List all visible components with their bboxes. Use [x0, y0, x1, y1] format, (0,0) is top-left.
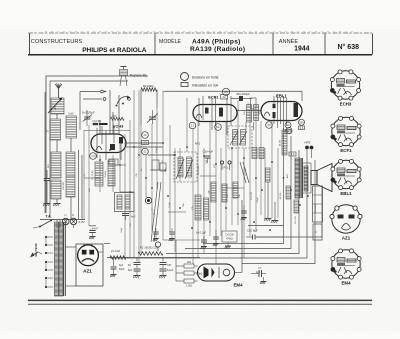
node current box [142, 141, 149, 145]
label col 6 [245, 167, 253, 200]
coil L9 [105, 160, 115, 186]
resistor R16 [280, 130, 288, 155]
coil L5 [66, 152, 75, 176]
IF transformer MF2 [195, 126, 252, 148]
ground g2 [53, 199, 61, 206]
wire h6 [84, 122, 254, 212]
speaker [311, 164, 332, 192]
label 6.3V [79, 220, 85, 224]
ground g4 [271, 202, 279, 223]
capacitor C80 [89, 231, 96, 240]
capacitor C41 [128, 258, 141, 279]
resistor R24 [204, 198, 209, 220]
legend current symbol [181, 83, 219, 88]
coil L1 antenna [48, 98, 64, 115]
header label MODELE [159, 38, 181, 45]
label EBL1 [276, 93, 287, 98]
wire em4 right [235, 200, 243, 273]
capacitor C7 [242, 266, 262, 276]
tube socket EBL1 [331, 159, 361, 196]
resistor R32 [184, 271, 203, 276]
mains plug [30, 252, 42, 258]
svg-text:RA139 (Radiolo): RA139 (Radiolo) [190, 46, 245, 53]
wire l1 [57, 138, 71, 152]
mains selector box [313, 186, 323, 222]
label col 2 [121, 222, 132, 232]
wire vertical bus group [84, 90, 278, 264]
tube ECF1 internals [196, 96, 231, 135]
output transformer secondary [304, 166, 308, 191]
node voltage 5A [215, 124, 222, 131]
mains label SECTEUR [34, 243, 38, 256]
wire ech3 top [100, 90, 163, 143]
node voltage 1.5 [90, 153, 97, 160]
wire h3 [84, 131, 130, 231]
transformer taps [45, 236, 53, 288]
tube ECH3 [91, 134, 126, 153]
wire transformer top [57, 220, 74, 229]
potentiometer P2 [138, 242, 163, 255]
sheet top edge line [28, 32, 372, 33]
wire h4 [120, 192, 200, 240]
pickup input Pu [120, 67, 128, 87]
tube EM4 [198, 264, 235, 281]
header value PHILIPS et RADIOLA [82, 47, 147, 54]
resistor R10 [244, 105, 252, 123]
resistor R22 [266, 168, 271, 182]
wire top bus [164, 91, 303, 101]
terminal PU [220, 161, 231, 170]
node current 0.6 [299, 126, 305, 130]
trimmer capacitor C5 [82, 110, 95, 126]
node voltage 12 [142, 148, 149, 155]
resistor R3 [111, 115, 125, 120]
capacitor C52 [241, 205, 247, 220]
mains selector box 2 [313, 224, 322, 240]
label Pu [130, 74, 147, 78]
tube EM4 internals [204, 267, 230, 279]
trimmer capacitor C6 [147, 110, 158, 124]
tube socket EM4 [331, 249, 361, 286]
svg-text:A49A (Philips): A49A (Philips) [192, 39, 241, 46]
capacitor C50 [196, 232, 207, 250]
svg-text:PHILIPS et RADIOLA: PHILIPS et RADIOLA [82, 47, 147, 54]
switch S1 contacts [80, 90, 107, 130]
capacitor C2 [44, 170, 51, 203]
coil L6 [51, 180, 61, 199]
tube EBL1 [261, 102, 302, 121]
small boxes under ech3 [109, 159, 166, 171]
resistor R23 [192, 195, 201, 220]
resistor R41 [294, 200, 299, 213]
wire below L1 [56, 114, 58, 119]
node voltage 1.2 [189, 122, 196, 129]
current box 6.3 [289, 152, 296, 156]
label AZ1 [83, 269, 92, 274]
coil L2 [47, 119, 61, 140]
coil core bar [99, 123, 108, 125]
capacitor C30 [203, 150, 214, 164]
ground g1 [43, 204, 51, 207]
label ECF1 [208, 94, 227, 99]
tube socket AZ1 [330, 205, 362, 241]
svg-text:CONSTRUCTEURS: CONSTRUCTEURS [31, 39, 83, 45]
power transformer core [64, 222, 66, 296]
coil L3 [66, 113, 77, 139]
wire AZ1 loop [66, 244, 103, 286]
label col 1 [84, 173, 91, 192]
svg-text:1944: 1944 [294, 46, 309, 53]
header label ANNEE [279, 38, 299, 45]
terminal strip TA [40, 215, 85, 220]
switch S1 wiper [116, 96, 131, 107]
tube ECF1 [193, 105, 237, 122]
resistor box C48 [222, 231, 237, 242]
diagonal wire d1 [240, 162, 249, 183]
node voltage dark [145, 197, 151, 203]
wire l2 [71, 150, 82, 219]
diagonal wire d2 [150, 182, 161, 242]
wire em4 in [176, 240, 198, 281]
header value No 638 [338, 43, 360, 51]
label col 7 [257, 192, 282, 203]
wire output bus staircase [110, 128, 322, 264]
coil L7 [63, 176, 75, 197]
resistor network box [115, 193, 135, 212]
resistor R25 [209, 182, 217, 202]
terminal HP2 [305, 141, 314, 158]
power transformer primary [55, 222, 59, 296]
capacitor C20 450pF [231, 92, 252, 101]
resistor R20 [252, 148, 257, 159]
svg-text:ANNÉE: ANNÉE [279, 38, 299, 45]
dial lamp 1 [62, 213, 69, 225]
coil L8 [92, 162, 103, 186]
sheet bottom line [28, 300, 372, 304]
label EM4 [233, 283, 243, 288]
wire shield box inner [50, 81, 128, 218]
resistor R26 [222, 184, 227, 202]
label col 8 [286, 173, 297, 224]
label col 3 [136, 167, 143, 176]
wire bottom bus h [104, 244, 200, 258]
junction dots [99, 142, 309, 231]
mains switch [33, 220, 52, 229]
tube AZ1 [78, 245, 99, 266]
antenna [55, 83, 62, 98]
label col 4 [156, 146, 164, 163]
resistor R31 [184, 261, 194, 268]
label ECH3 [113, 124, 124, 129]
svg-text:N° 638: N° 638 [338, 43, 360, 51]
legend voltage symbol [181, 73, 219, 81]
node voltage 200 [299, 119, 305, 125]
wire h2 [237, 110, 261, 112]
header value A49A (Philips) [192, 39, 241, 46]
wire speaker [303, 163, 311, 193]
header table frame [28, 34, 373, 55]
power transformer secondary [59, 222, 63, 296]
dial lamp 2 [70, 213, 77, 225]
coil L4 [47, 152, 61, 178]
tube socket ECF1 [331, 116, 361, 153]
output transformer primary [295, 158, 303, 198]
ground g3 [264, 182, 272, 221]
wire shield box outer [46, 76, 148, 213]
node voltage 90 [286, 128, 292, 134]
node voltage 4.5 [266, 122, 273, 129]
IF transformer MF1 [174, 152, 197, 182]
svg-text:MODÈLE: MODÈLE [159, 38, 181, 45]
tube ECH3 internals [96, 126, 123, 160]
wire h5 [230, 226, 284, 231]
capacitor C12 [122, 214, 136, 221]
capacitor C11 [93, 120, 101, 125]
tube EBL1 internals [264, 96, 298, 130]
resistor R33 [184, 279, 194, 288]
resistor R21 [259, 148, 264, 159]
capacitor C53 [153, 228, 159, 241]
resistor R30 [110, 249, 126, 259]
header value 1944 [294, 46, 309, 53]
capacitor C42 [159, 258, 174, 279]
node voltage 10b [285, 122, 291, 134]
node voltage 10 [142, 132, 149, 139]
resistor R15 [248, 98, 256, 109]
header label CONSTRUCTEURS [31, 39, 83, 45]
resistor R27 [233, 182, 238, 198]
resistor R40 [286, 186, 291, 199]
tube socket ECH3 [330, 70, 360, 107]
capacitor C54 [169, 228, 175, 241]
capacitor C81 [246, 229, 284, 240]
ground g5 [225, 242, 232, 249]
header value RA139 (Radiola) [190, 46, 245, 53]
capacitor C40 [110, 258, 125, 278]
resistor labels column [165, 163, 241, 207]
capacitor C51 [213, 230, 219, 246]
capacitor C7 sym [251, 270, 267, 284]
label col 5 [198, 159, 208, 175]
wire left bus [44, 92, 46, 213]
resistor R11 [254, 105, 262, 121]
resistor R2 8x10k [141, 84, 157, 125]
node voltage 100 [222, 88, 229, 95]
wire h1 [126, 147, 175, 155]
